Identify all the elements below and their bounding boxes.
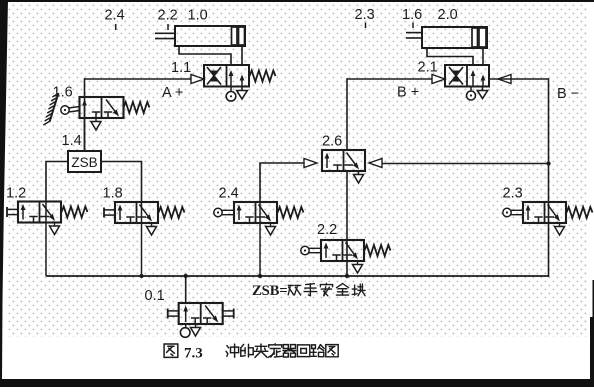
wire B- signal — [498, 78, 549, 80]
valve 1.1 source — [230, 87, 232, 92]
valve 2.3 flow arrow — [527, 208, 529, 221]
valve 1.2 flow arrow — [22, 207, 24, 220]
wire cylinder 2.0 right port — [482, 48, 484, 65]
valve 2.2 exhaust — [357, 261, 359, 265]
valve 2.2 blocked port left — [336, 255, 338, 261]
svg-text:2.4: 2.4 — [219, 186, 239, 202]
valve 1.1 body — [204, 65, 249, 87]
valve 2.6 body — [322, 150, 365, 171]
valve 2.2 body — [321, 240, 364, 261]
svg-text:2.2: 2.2 — [158, 8, 178, 24]
valve 1.6 blocked port right — [107, 112, 109, 118]
valve 2.3 roller — [503, 208, 511, 216]
valve 1.2 blocked port left — [33, 217, 35, 223]
valve 2.3 spring — [567, 207, 593, 218]
valve 2.2 blocked port right — [344, 254, 353, 256]
valve 2.3 blocked port right — [546, 216, 555, 218]
valve 1.1 pilot — [191, 75, 204, 84]
wire ZSB to valve 1.2 — [46, 162, 68, 202]
node bus valve 2.2 — [345, 274, 349, 278]
svg-text:1.0: 1.0 — [188, 8, 208, 24]
valve 0.1 blocked port left — [194, 318, 196, 324]
svg-text:0.1: 0.1 — [145, 288, 165, 304]
valve 1.1 crossed X path — [207, 67, 221, 85]
wire valve 2.4 output to 2.6 pilot — [260, 163, 305, 202]
valve 2.1 exhaust — [482, 87, 484, 91]
valve 1.6 roller lever wall — [50, 93, 59, 122]
svg-text:B +: B + — [397, 85, 419, 101]
valve 1.8 blocked port right — [138, 216, 147, 218]
wire valve 2.2 supply — [346, 240, 348, 276]
valve 1.2 exhaust — [54, 223, 56, 227]
valve 2.4 exhaust — [270, 223, 272, 227]
page border right — [590, 280, 594, 387]
wire valve 1.2 supply — [45, 202, 47, 277]
valve 1.6 closed path — [106, 100, 115, 111]
valve 1.6 spring — [124, 102, 150, 113]
wire A+ riser — [84, 78, 86, 151]
valve 2.2 closed path — [346, 243, 354, 254]
valve 1.2 closed path — [43, 204, 51, 215]
valve 2.1 left pilot — [432, 75, 445, 84]
valve 1.8 pushbutton — [103, 208, 105, 218]
valve 2.1 crossed X path — [449, 67, 463, 85]
valve 1.6 roller — [61, 106, 69, 114]
wire cylinder 1.0 right port — [241, 46, 243, 65]
cylinder 1.0 piston — [232, 27, 238, 45]
valve 2.6 left pilot — [304, 159, 317, 168]
wire valve 1.8 supply — [141, 202, 143, 276]
svg-text:A +: A + — [162, 85, 183, 101]
wire valve 1.6 to ZSB — [84, 118, 86, 151]
valve 2.1 right pilot — [489, 78, 499, 80]
valve 2.3 body — [523, 202, 566, 223]
valve 0.1 blocked port right — [206, 318, 208, 324]
svg-text:1.1: 1.1 — [171, 60, 191, 76]
wire 2.6 output riser — [346, 78, 348, 150]
svg-text:B −: B − — [557, 86, 579, 102]
valve 2.4 blocked port right — [257, 216, 266, 218]
valve 2.4 flow arrow — [238, 208, 240, 221]
svg-text:2.4: 2.4 — [105, 8, 125, 24]
valve 1.2 spring — [62, 207, 88, 218]
svg-text:2.0: 2.0 — [438, 7, 458, 23]
wire A+ signal — [85, 78, 192, 80]
valve 1.2 blocked port right — [41, 216, 50, 218]
svg-text:7.3: 7.3 — [184, 346, 203, 362]
node bus valve 0.1 — [184, 274, 188, 278]
valve 1.8 flow arrow — [119, 208, 121, 221]
valve 1.1 spring — [250, 71, 276, 82]
wire cylinder 2.0 left port — [427, 48, 473, 65]
valve 1.2 body — [18, 202, 61, 223]
valve 2.3 blocked port left — [538, 217, 540, 223]
wire 2.6 right pilot to riser — [382, 163, 549, 165]
cylinder 2.0 rod — [406, 32, 422, 34]
valve 2.1 body — [445, 65, 489, 87]
valve 0.1 body — [179, 303, 223, 324]
svg-text:1.4: 1.4 — [62, 133, 82, 149]
svg-text:ZSB: ZSB — [71, 155, 97, 170]
valve 1.8 closed path — [140, 205, 148, 216]
valve 0.1 exhaust — [195, 324, 197, 328]
caption figure 7.3 — [164, 344, 178, 357]
svg-text:2.3: 2.3 — [503, 186, 523, 202]
valve 1.8 blocked port left — [130, 217, 132, 223]
valve 1.1 exhaust — [241, 87, 243, 91]
valve 2.3 exhaust — [559, 223, 561, 227]
page border left — [0, 0, 8, 380]
wire cylinder 1.0 left port — [179, 46, 231, 65]
valve 1.6 body — [80, 97, 124, 118]
page border bottom — [0, 379, 594, 387]
svg-text:1.6: 1.6 — [402, 7, 422, 23]
page border top — [0, 0, 594, 2]
valve 2.6 blocked port left — [337, 165, 339, 171]
svg-text:ZSB=: ZSB= — [252, 283, 288, 299]
valve 0.1 source — [185, 324, 187, 328]
valve 0.1 left button — [167, 309, 169, 319]
wire B+ signal — [347, 78, 432, 80]
wire valve 2.6 supply — [346, 171, 348, 240]
wire valve 2.4 supply — [259, 202, 261, 276]
valve 2.4 roller — [214, 208, 222, 216]
ZSB two-hand safety block — [68, 151, 101, 172]
valve 2.6 flow arrow — [326, 156, 328, 169]
valve 2.6 right pilot — [369, 159, 382, 168]
valve 1.8 body — [115, 202, 158, 223]
wire ZSB to valve 1.8 — [101, 162, 142, 203]
valve 2.3 closed path — [548, 205, 556, 216]
cylinder 2.0 piston — [472, 28, 478, 47]
valve 2.6 blocked port right — [345, 164, 354, 166]
node bus valve 2.4 — [258, 274, 262, 278]
valve 2.4 blocked port left — [249, 217, 251, 223]
valve 2.4 body — [234, 202, 277, 223]
valve 1.6 flow arrow — [84, 103, 86, 117]
valve 2.1 source — [470, 87, 472, 92]
valve 2.1 flow arrows — [472, 73, 474, 87]
svg-text:2.2: 2.2 — [317, 222, 337, 238]
svg-text:2.6: 2.6 — [322, 134, 342, 150]
valve 2.2 flow arrow — [325, 246, 327, 259]
valve 1.6 blocked port left — [95, 112, 97, 118]
valve 1.2 pushbutton — [6, 207, 8, 217]
svg-text:1.2: 1.2 — [6, 186, 26, 202]
valve 1.6 exhaust — [95, 118, 97, 122]
valve 1.8 exhaust — [151, 223, 153, 227]
node junction B- riser — [546, 161, 550, 165]
svg-text:2.3: 2.3 — [355, 7, 375, 23]
valve 0.1 right button — [233, 309, 235, 319]
valve 2.6 exhaust — [358, 171, 360, 175]
cylinder 1.0 rod — [155, 32, 175, 34]
valve 0.1 flow arrow — [185, 309, 187, 323]
node bus valve 1.8 — [139, 274, 143, 278]
cylinder 1.0 body — [175, 26, 245, 46]
valve 2.4 spring — [278, 207, 304, 218]
valve 2.6 closed path — [347, 153, 355, 164]
valve 2.2 spring — [365, 245, 391, 256]
valve 1.8 spring — [159, 207, 185, 218]
valve 2.2 roller — [301, 246, 309, 254]
valve 2.4 closed path — [259, 205, 267, 216]
supply bus wire — [46, 275, 549, 277]
svg-text:2.1: 2.1 — [418, 60, 438, 76]
cylinder 2.0 body — [422, 27, 487, 48]
valve 0.1 closed path — [205, 306, 214, 317]
wire valve 0.1 output — [185, 276, 187, 303]
valve 1.1 flow arrows — [230, 73, 232, 87]
svg-text:1.8: 1.8 — [103, 186, 123, 202]
wire B- riser — [548, 78, 550, 277]
